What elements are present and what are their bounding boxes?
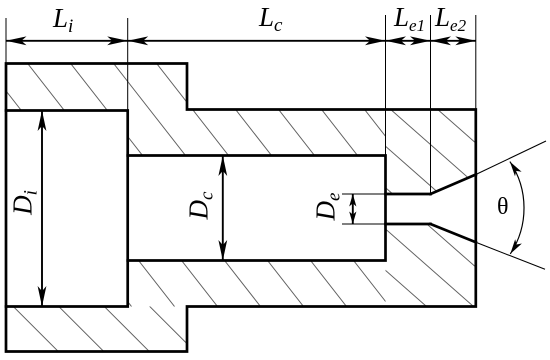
arrowheads D_c	[218, 156, 227, 177]
label L_i	[53, 5, 73, 36]
label L_e2	[435, 4, 466, 34]
dimension D_i line	[41, 111, 43, 307]
label theta	[497, 195, 509, 219]
arrowheads horizontal dims	[6, 36, 27, 45]
hatching main body	[0, 55, 550, 312]
dimension D_c line	[222, 156, 224, 261]
divergent cone edges	[431, 175, 476, 243]
label L_e1	[394, 4, 425, 34]
theta arc arrowhead lower	[510, 239, 522, 254]
theta arc arrowhead upper	[510, 162, 522, 177]
extension lines	[6, 15, 476, 224]
hatching bottom flange	[10, 303, 244, 355]
dimension D_e line	[352, 194, 354, 224]
arrowheads D_i	[38, 111, 47, 132]
throat bore outline	[386, 194, 431, 224]
chamber bore outline	[128, 156, 386, 261]
dimension line horizontal	[6, 40, 476, 42]
label D_c	[186, 186, 213, 226]
body outline	[6, 64, 476, 352]
label L_c	[259, 4, 282, 35]
hatching nozzle end block	[145, 100, 550, 315]
label D_i	[10, 183, 37, 223]
label D_e	[313, 187, 340, 227]
inlet cavity outline	[6, 111, 128, 307]
theta angle line upper	[476, 141, 546, 175]
theta angle line lower	[476, 242, 545, 269]
arrowheads D_e	[349, 194, 356, 207]
theta arc	[510, 162, 524, 254]
